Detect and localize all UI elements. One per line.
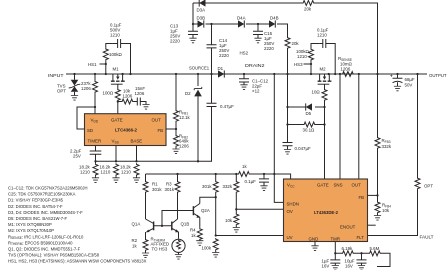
svg-text:1210: 1210 xyxy=(80,170,90,175)
wire line B VCC rail xyxy=(146,174,291,179)
wire VCC drop xyxy=(273,73,275,75)
svg-text:C14: C14 xyxy=(219,38,228,43)
svg-text:301k: 301k xyxy=(152,187,162,192)
M2 snubber resistor 100k xyxy=(310,73,312,75)
wire SD xyxy=(77,107,95,129)
svg-text:0.1µF: 0.1µF xyxy=(245,179,257,184)
svg-text:FB: FB xyxy=(359,195,365,200)
junction xyxy=(117,100,119,102)
wire second rail y24 xyxy=(193,3,288,74)
svg-text:GND: GND xyxy=(309,237,319,242)
svg-text:0.1µF: 0.1µF xyxy=(110,23,122,28)
wire UV xyxy=(215,234,217,236)
resistor R2 xyxy=(143,239,148,252)
svg-text:M2: M2 xyxy=(320,67,327,72)
svg-text:HS2: HS2 xyxy=(240,51,249,56)
svg-text:16V: 16V xyxy=(322,264,330,269)
svg-text:1210: 1210 xyxy=(317,33,327,38)
capacitor C1-C12 xyxy=(243,73,245,75)
svg-text:FB: FB xyxy=(158,128,164,133)
ground xyxy=(284,150,291,155)
svg-text:68µF: 68µF xyxy=(405,77,415,82)
resistor 30.1ohm xyxy=(323,123,325,125)
ground xyxy=(311,246,318,251)
svg-text:1206: 1206 xyxy=(341,67,351,72)
svg-text:6.19k: 6.19k xyxy=(342,246,354,251)
resistor RFB4 xyxy=(375,201,380,214)
transistor M2 xyxy=(318,74,332,89)
ground xyxy=(233,228,240,233)
svg-text:1210: 1210 xyxy=(121,170,131,175)
svg-text:500V: 500V xyxy=(110,28,120,33)
junction xyxy=(328,73,330,75)
svg-text:5.6M: 5.6M xyxy=(370,246,380,251)
main rail y74 xyxy=(66,73,427,75)
svg-text:AFFIXED: AFFIXED xyxy=(151,242,170,247)
resistor R4 xyxy=(197,228,202,241)
svg-text:M1: IXYS IXTQ88N30P: M1: IXYS IXTQ88N30P xyxy=(8,222,52,227)
svg-text:R4: R4 xyxy=(190,228,196,233)
svg-text:1µF: 1µF xyxy=(264,36,272,41)
svg-text:×12: ×12 xyxy=(252,89,260,94)
ground xyxy=(142,253,149,258)
svg-text:+: + xyxy=(390,74,393,79)
capacitor 68uF xyxy=(396,73,398,75)
svg-text:Q1B: Q1B xyxy=(181,222,190,227)
ground xyxy=(92,178,99,183)
ground xyxy=(212,253,219,258)
resistor 18.2k #2 xyxy=(115,160,117,162)
svg-text:RSENSE: RSENSE xyxy=(338,56,352,62)
junction xyxy=(376,194,378,196)
ground GND pin xyxy=(314,242,316,246)
junction xyxy=(273,173,275,175)
svg-text:1206: 1206 xyxy=(81,86,91,91)
svg-text:TIMER: TIMER xyxy=(88,139,102,144)
svg-text:SHDN: SHDN xyxy=(287,202,299,207)
junction xyxy=(161,225,163,227)
gate network vertical xyxy=(286,73,288,75)
capacitor 0.047uF xyxy=(283,143,293,146)
svg-text:15nF: 15nF xyxy=(135,86,145,91)
ground xyxy=(196,241,203,246)
svg-text:10Ω: 10Ω xyxy=(312,90,321,95)
svg-text:12.1k: 12.1k xyxy=(179,115,191,120)
svg-text:1206: 1206 xyxy=(179,144,189,149)
svg-text:649k: 649k xyxy=(179,139,189,144)
wire OUT column xyxy=(358,73,360,75)
svg-text:18.2k: 18.2k xyxy=(120,165,132,170)
svg-text:D2: DIODES INC. BAT54-7-F: D2: DIODES INC. BAT54-7-F xyxy=(8,204,63,209)
svg-text:1210: 1210 xyxy=(297,54,307,59)
svg-text:301k: 301k xyxy=(165,187,175,192)
svg-text:M2: IXYS IXTQ170N10P: M2: IXYS IXTQ170N10P xyxy=(8,228,54,233)
svg-text:R2: R2 xyxy=(132,238,138,243)
svg-text:OUTPUT: OUTPUT xyxy=(429,73,447,78)
node VDD junction xyxy=(94,106,96,108)
svg-text:2220: 2220 xyxy=(219,53,229,58)
resistor 5.6M xyxy=(369,251,382,256)
svg-text:HS1, HS2, HS3 (HEATSINKS): ASS: HS1, HS2, HS3 (HEATSINKS): ASSMANN WSW C… xyxy=(8,259,147,264)
svg-text:RFB4: RFB4 xyxy=(382,203,391,209)
svg-text:SOURCE1: SOURCE1 xyxy=(189,66,209,71)
svg-text:Q1A: Q1A xyxy=(132,222,141,227)
svg-text:C13: C13 xyxy=(170,24,179,29)
resistor 20k vertical xyxy=(285,37,290,50)
transistor M1 xyxy=(111,74,125,89)
ground xyxy=(133,178,140,183)
ground xyxy=(332,266,339,270)
svg-text:250V: 250V xyxy=(219,48,229,53)
diode D2 schottky xyxy=(197,74,199,86)
wire base Q1A-Q1B xyxy=(154,225,172,227)
svg-text:LT4363DE-2: LT4363DE-2 xyxy=(314,210,338,215)
svg-text:TO HS3: TO HS3 xyxy=(152,247,168,252)
resistor 10k gate xyxy=(118,101,121,103)
capacitor 10uF xyxy=(360,252,362,254)
svg-text:16V: 16V xyxy=(345,264,353,269)
junction xyxy=(215,196,217,198)
resistor 18.2k #1 xyxy=(94,160,96,162)
ground xyxy=(175,255,182,260)
transistor Q1A xyxy=(152,222,155,231)
svg-text:LTC4366-2: LTC4366-2 xyxy=(115,128,137,133)
svg-text:18.2k: 18.2k xyxy=(100,165,112,170)
junction xyxy=(334,252,336,254)
svg-text:1k: 1k xyxy=(191,233,196,238)
ground xyxy=(172,149,179,154)
junction xyxy=(197,160,199,162)
svg-text:0.1µF: 0.1µF xyxy=(317,28,329,33)
resistor 6.19k xyxy=(342,251,355,256)
capacitor 1uF timer xyxy=(334,253,336,260)
svg-text:HS3: HS3 xyxy=(294,62,303,67)
svg-text:R1: R1 xyxy=(152,182,158,187)
ground xyxy=(112,178,119,183)
svg-text:SNS: SNS xyxy=(334,183,343,188)
resistor OPT column xyxy=(368,74,418,236)
ground xyxy=(394,86,401,91)
svg-text:TVS (OPTIONAL): VISHAY P6SMB15: TVS (OPTIONAL): VISHAY P6SMB150CA-E3/58 xyxy=(8,253,100,258)
svg-text:INPUT: INPUT xyxy=(48,73,64,78)
svg-text:RTHERM: EPCOS B59901D100A40: RTHERM: EPCOS B59901D100A40 xyxy=(8,240,73,246)
junction xyxy=(129,73,131,75)
svg-text:OPT: OPT xyxy=(424,184,433,189)
svg-text:FLT: FLT xyxy=(357,235,365,240)
wire FB pin xyxy=(166,128,176,130)
resistor 1k horizontal xyxy=(238,172,251,177)
wire top rail from C13 corner to right corner xyxy=(193,3,378,74)
svg-text:OPT: OPT xyxy=(57,89,66,94)
op-amp U1 LTC4366-2 block xyxy=(85,114,167,146)
ground xyxy=(254,38,261,43)
wire TMR xyxy=(335,242,390,267)
transistor Q2A xyxy=(162,211,193,226)
wire OV xyxy=(235,208,237,210)
svg-text:0.47µF: 0.47µF xyxy=(220,104,234,109)
svg-text:18.2k: 18.2k xyxy=(79,165,91,170)
resistor 100ohm gate xyxy=(115,89,120,102)
svg-text:100Ω: 100Ω xyxy=(103,91,114,96)
svg-text:10µF: 10µF xyxy=(345,259,355,264)
TVS optional xyxy=(73,73,75,75)
svg-text:Q2A: Q2A xyxy=(201,208,210,213)
capacitor C13 xyxy=(192,23,194,25)
resistor R1 xyxy=(145,174,147,219)
svg-text:UV: UV xyxy=(287,235,293,240)
ground xyxy=(240,85,247,90)
svg-text:10k: 10k xyxy=(225,218,233,223)
svg-text:SD: SD xyxy=(87,128,93,133)
junction xyxy=(310,63,312,65)
resistor RFB3 column xyxy=(376,73,378,75)
svg-text:2.2µF: 2.2µF xyxy=(70,149,82,154)
resistor RFB2 xyxy=(175,129,177,149)
svg-text:D1: VISHAY FEP30GP-E3/45: D1: VISHAY FEP30GP-E3/45 xyxy=(8,198,64,203)
svg-text:1µF: 1µF xyxy=(219,43,227,48)
capacitor 2.2uF timer xyxy=(95,146,97,162)
svg-text:20k: 20k xyxy=(292,41,300,46)
svg-text:50V: 50V xyxy=(405,83,413,88)
svg-text:1µF: 1µF xyxy=(170,29,178,34)
svg-text:OUT: OUT xyxy=(352,183,362,188)
resistor 301k column xyxy=(215,173,217,175)
resistor 332k column xyxy=(235,173,237,175)
svg-text:D4B: D4B xyxy=(270,16,279,21)
svg-text:D5: D5 xyxy=(306,111,312,116)
svg-text:0.047µF: 0.047µF xyxy=(295,146,312,151)
svg-text:OUT: OUT xyxy=(152,118,162,123)
junction xyxy=(197,73,199,75)
svg-text:D3B: D3B xyxy=(197,16,206,21)
ground xyxy=(358,266,365,270)
svg-text:RSENSE: IRC LRC-LRF-1206LF-01-: RSENSE: IRC LRC-LRF-1206LF-01-R010 xyxy=(8,234,84,240)
capacitor 0.1uF shdn xyxy=(263,173,265,175)
svg-text:100kΩ: 100kΩ xyxy=(109,52,123,57)
resistor RFB1 xyxy=(175,73,177,75)
svg-text:R3: R3 xyxy=(166,182,172,187)
wire SNS column xyxy=(339,74,341,179)
svg-text:OV: OV xyxy=(287,209,293,214)
svg-text:GATE: GATE xyxy=(111,118,123,123)
svg-text:10mΩ: 10mΩ xyxy=(340,62,353,67)
svg-text:1k: 1k xyxy=(132,244,137,249)
M2 snubber capacitor 0.1uF 1210 xyxy=(319,39,335,74)
node OUTPUT xyxy=(416,73,418,75)
thermistor RTHERM xyxy=(172,239,185,252)
svg-text:1210: 1210 xyxy=(110,33,120,38)
diode D4B xyxy=(269,20,275,27)
svg-text:1206: 1206 xyxy=(123,94,133,99)
wire FB xyxy=(368,194,378,196)
svg-text:250V: 250V xyxy=(264,41,274,46)
svg-text:HS1: HS1 xyxy=(88,62,97,67)
svg-text:TVS: TVS xyxy=(57,84,66,89)
svg-text:25V: 25V xyxy=(73,154,81,159)
svg-text:250V: 250V xyxy=(170,34,180,39)
svg-text:D5: DIODES INC. BAS21W-7-F: D5: DIODES INC. BAS21W-7-F xyxy=(8,216,67,221)
diode D1 xyxy=(217,73,218,75)
junction xyxy=(286,123,288,125)
svg-text:FAULT: FAULT xyxy=(420,235,434,240)
junction xyxy=(334,73,336,75)
ground xyxy=(71,96,78,101)
svg-text:237k: 237k xyxy=(81,81,91,86)
junction xyxy=(286,106,288,108)
diode D3A xyxy=(199,0,205,7)
svg-text:10k: 10k xyxy=(382,208,390,213)
svg-text:D3A: D3A xyxy=(197,8,206,13)
svg-text:332k: 332k xyxy=(382,144,392,149)
svg-text:20k: 20k xyxy=(304,7,312,12)
junction xyxy=(105,63,107,65)
svg-text:GATE: GATE xyxy=(317,183,329,188)
wire ENOUT stub xyxy=(368,224,376,226)
svg-text:D4A: D4A xyxy=(237,16,246,21)
svg-text:BASE: BASE xyxy=(131,139,143,144)
svg-text:1µF: 1µF xyxy=(322,259,330,264)
transistor Q1B xyxy=(170,222,173,231)
svg-text:C25: TDK C5750X7R2E105K230KA: C25: TDK C5750X7R2E105K230KA xyxy=(8,192,76,197)
resistor 237k xyxy=(94,73,96,75)
capacitor 15nF xyxy=(134,98,146,106)
junction xyxy=(175,128,177,130)
resistor RSENSE xyxy=(339,73,341,75)
resistor 10ohm gate xyxy=(322,89,327,102)
svg-text:RFB3: RFB3 xyxy=(382,138,391,144)
svg-text:10k: 10k xyxy=(123,89,131,94)
svg-text:1210: 1210 xyxy=(101,170,111,175)
svg-text:D2: D2 xyxy=(185,91,191,96)
ground xyxy=(260,186,267,191)
svg-text:RFB1: RFB1 xyxy=(179,110,188,116)
ground xyxy=(142,105,149,110)
ground xyxy=(374,216,381,221)
svg-text:Q1, Q2: DIODES INC. MMDT5551-7: Q1, Q2: DIODES INC. MMDT5551-7-F xyxy=(8,247,81,252)
svg-text:100k: 100k xyxy=(202,246,212,251)
diode D4A xyxy=(238,20,244,27)
svg-text:D1: D1 xyxy=(218,66,224,71)
capacitor C14 xyxy=(210,23,212,25)
svg-text:C1–C12: TDK CKG57NX7S2A226M500: C1–C12: TDK CKG57NX7S2A226M500JH xyxy=(8,186,88,191)
svg-text:D3, D4: DIODES INC. MMBD3004S-: D3, D4: DIODES INC. MMBD3004S-7-F xyxy=(8,210,83,215)
svg-text:100kΩ: 100kΩ xyxy=(296,49,310,54)
op-amp U2 LT4363DE-2 block xyxy=(284,179,368,242)
wire base line A xyxy=(96,160,212,162)
svg-text:C1–C12: C1–C12 xyxy=(252,79,269,84)
resistor 18.2k #3 xyxy=(135,160,137,162)
ground xyxy=(189,38,196,43)
M1 snubber: resistor 100k xyxy=(105,73,107,75)
wire BASE stub xyxy=(136,146,138,162)
M1 snubber: capacitor 0.1uF 500V 1210 xyxy=(113,39,131,74)
svg-text:TMR: TMR xyxy=(331,237,341,242)
diode D5 xyxy=(323,106,325,108)
resistor 100k xyxy=(213,238,218,251)
svg-text:C15: C15 xyxy=(264,31,273,36)
capacitor 0.47uF xyxy=(210,73,212,75)
svg-text:1k: 1k xyxy=(242,164,247,169)
wire VSS stub xyxy=(115,146,117,162)
diode D3B xyxy=(198,20,204,27)
resistor 10k lower xyxy=(234,213,239,226)
resistor R3 xyxy=(176,173,178,175)
svg-text:301k: 301k xyxy=(202,184,212,189)
svg-text:332k: 332k xyxy=(223,184,233,189)
svg-text:2220: 2220 xyxy=(170,39,180,44)
svg-text:2220: 2220 xyxy=(264,46,274,51)
svg-text:30.1Ω: 30.1Ω xyxy=(303,128,316,133)
resistor 20k top xyxy=(302,1,315,6)
svg-text:DRAIN2: DRAIN2 xyxy=(245,63,265,68)
svg-text:ENOUT: ENOUT xyxy=(340,225,356,230)
svg-text:1206: 1206 xyxy=(135,91,145,96)
junction xyxy=(121,73,123,75)
capacitor C15 xyxy=(257,23,259,25)
svg-text:M1: M1 xyxy=(113,67,120,72)
svg-text:22µF: 22µF xyxy=(252,84,262,89)
BOM text block xyxy=(8,186,147,264)
